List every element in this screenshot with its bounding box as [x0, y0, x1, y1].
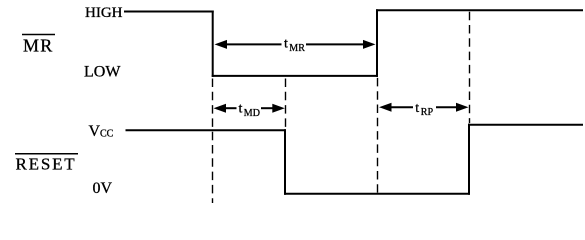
svg-text:RESET: RESET	[16, 155, 77, 174]
dimension arrow tMR right line	[306, 43, 365, 45]
svg-text:CC: CC	[100, 129, 114, 140]
wire MR high segment right	[376, 9, 583, 11]
dashed reference line at RESET rising edge	[469, 12, 471, 123]
svg-text:RP: RP	[421, 107, 434, 118]
svg-text:HIGH: HIGH	[85, 5, 123, 21]
wire RESET high segment right	[468, 124, 583, 126]
svg-text:t: t	[284, 37, 288, 52]
svg-text:t: t	[239, 101, 243, 116]
svg-text:MR: MR	[289, 43, 305, 54]
dimension arrow tMD right head	[272, 104, 285, 113]
dimension arrow tMR left head	[215, 40, 228, 49]
dimension arrow tRP left line	[390, 106, 414, 108]
wire RESET falling edge	[284, 129, 286, 195]
dimension arrow tMD left line	[224, 107, 237, 109]
wire MR rising edge	[376, 9, 378, 77]
svg-text:V: V	[89, 123, 101, 140]
svg-text:t: t	[415, 101, 419, 116]
wire RESET 0V segment	[284, 193, 470, 195]
wire MR high segment left	[124, 11, 214, 13]
dimension arrow tMR left line	[225, 43, 282, 45]
wire RESET rising edge	[468, 124, 470, 195]
wire MR low segment	[212, 75, 378, 77]
signal label RESET overline	[15, 153, 78, 155]
dimension arrow tMR right head	[363, 40, 376, 49]
svg-text:LOW: LOW	[84, 64, 121, 81]
dimension arrow tMD right line	[261, 107, 274, 109]
signal label MR overline	[22, 34, 55, 36]
dimension arrow tRP right line	[436, 106, 458, 108]
dashed reference line at MR falling edge	[212, 79, 214, 204]
dashed reference line at MR rising edge	[377, 78, 379, 193]
svg-text:0V: 0V	[93, 180, 113, 197]
wire MR falling edge	[212, 11, 214, 77]
wire RESET vcc segment	[126, 129, 287, 131]
dimension arrow tMD left head	[214, 104, 227, 113]
dashed reference line at RESET falling edge	[285, 79, 287, 129]
svg-text:MR: MR	[23, 36, 53, 56]
dimension arrow tRP left head	[379, 103, 392, 112]
dimension arrow tRP right head	[456, 103, 469, 112]
svg-text:MD: MD	[244, 108, 260, 119]
